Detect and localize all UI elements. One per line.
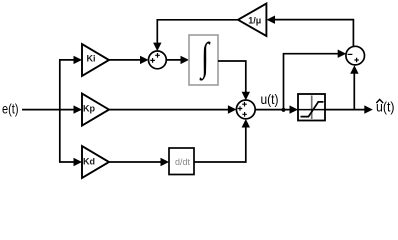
svg-text:u(t): u(t) [261, 91, 279, 107]
gain Kp [82, 94, 109, 126]
integrator block [189, 35, 218, 85]
wire integrator to summing junction S2 [218, 61, 246, 93]
wire saturation to output [325, 109, 368, 111]
wire S1 to integrator [166, 59, 184, 61]
derivative block d/dt [169, 148, 194, 175]
wire S2 to saturation block [255, 109, 294, 111]
saturation block [298, 94, 325, 121]
gain Ki [82, 44, 109, 76]
wire output up to S3 plus input [353, 73, 355, 110]
wire Ki to summing junction S1 [109, 59, 144, 61]
gain 1/mu [238, 4, 266, 37]
svg-text:Kd: Kd [83, 157, 95, 167]
svg-text:e(t): e(t) [2, 101, 19, 117]
wire 1/mu to S1 top input [157, 20, 238, 47]
gain Kd [82, 146, 109, 178]
svg-text:1/μ: 1/μ [248, 15, 261, 25]
summing junction S1 [149, 51, 167, 69]
wire e(t) to Kp input [22, 109, 77, 111]
wire d/dt to S2 bottom input [194, 127, 246, 162]
wire S3 to 1/mu block [271, 20, 353, 47]
svg-text:Ki: Ki [87, 54, 96, 64]
wire branch vertical [59, 60, 61, 162]
wire branch to Kd input [59, 161, 77, 163]
wire Kp to summing junction S2 [109, 109, 232, 111]
summing junction S3 [346, 46, 365, 65]
wire u(t) up to S3 minus input [284, 54, 342, 110]
svg-text:Kp: Kp [83, 104, 95, 114]
summing junction S2 [236, 100, 255, 119]
junction dot u(t) [281, 108, 285, 112]
svg-text:d/dt: d/dt [175, 157, 191, 167]
wire Kd to d/dt [109, 161, 164, 163]
wire branch to Ki input [59, 59, 77, 61]
